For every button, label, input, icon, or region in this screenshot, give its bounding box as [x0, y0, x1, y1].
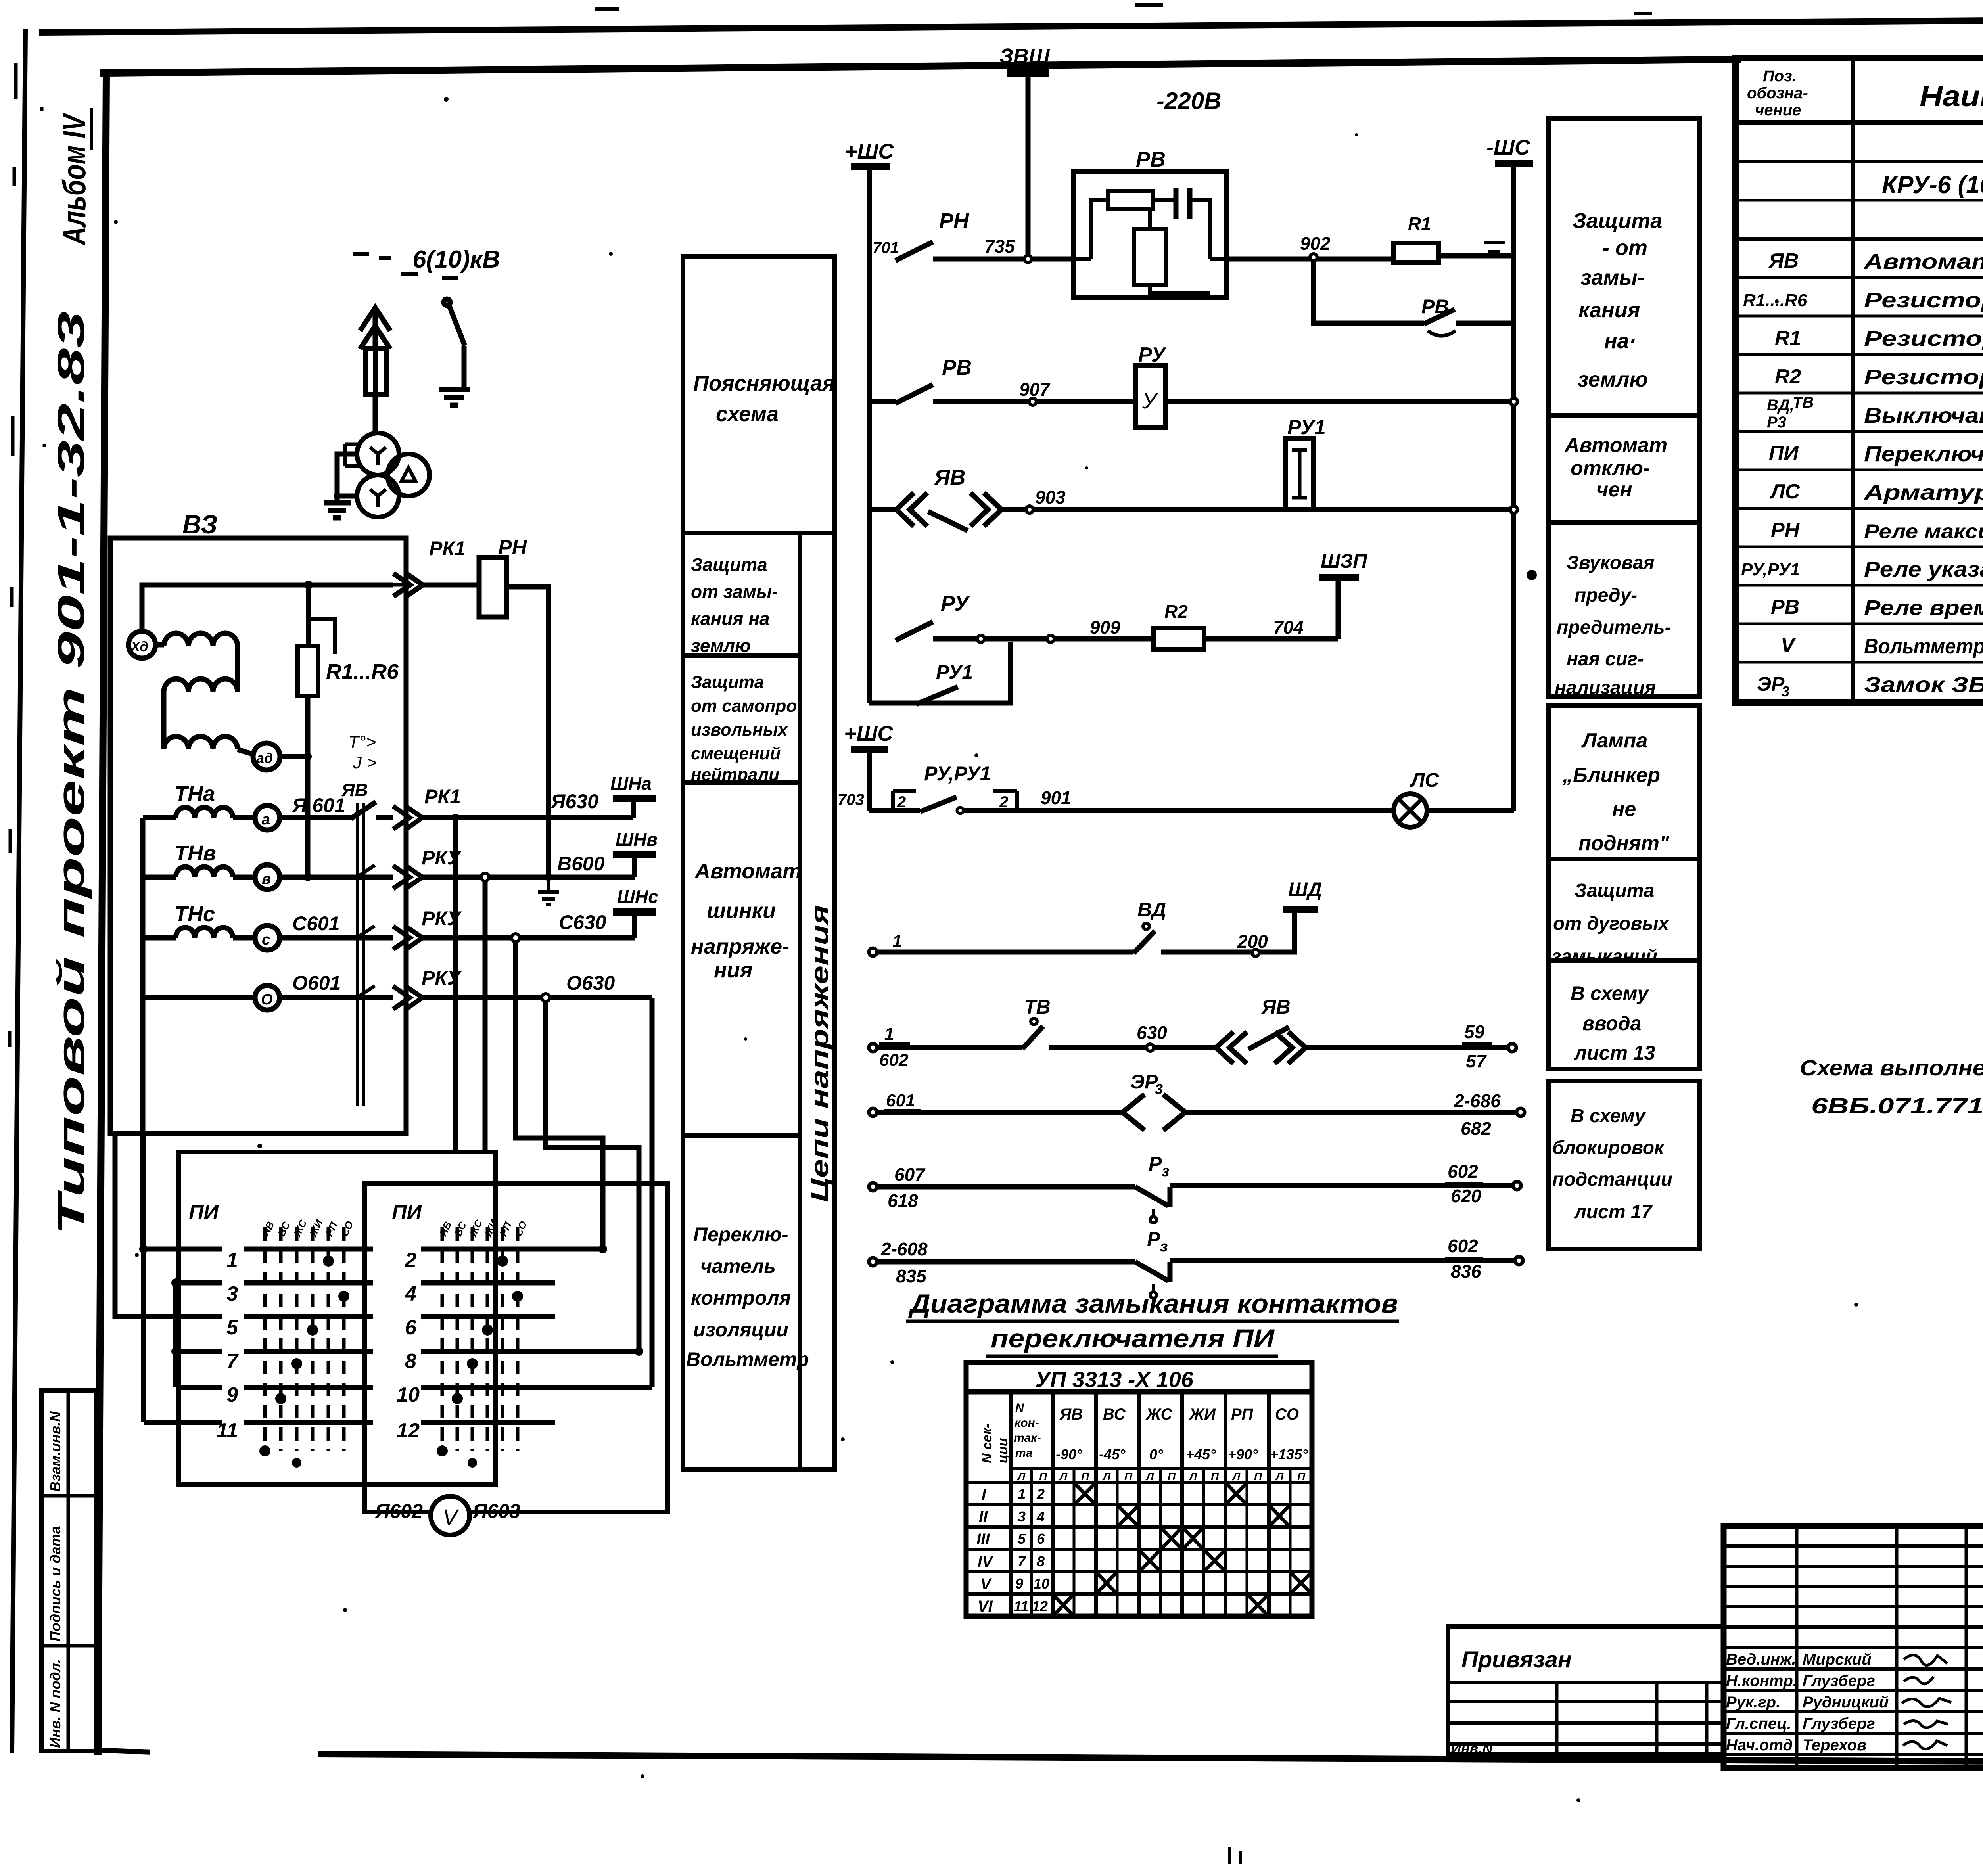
svg-text:П: П	[1297, 1470, 1306, 1483]
wire 200	[1161, 950, 1252, 955]
svg-text:620: 620	[1451, 1186, 1481, 1206]
text avtomat shinki	[691, 859, 802, 982]
svg-text:ВД: ВД	[1137, 899, 1166, 921]
PI left column tags	[259, 1217, 529, 1239]
svg-text:Наименование: Наименование	[1920, 80, 1983, 113]
svg-text:909: 909	[1090, 617, 1120, 638]
VZ box	[110, 538, 406, 1133]
UP table section numerals	[976, 1486, 994, 1615]
svg-text:J >: J >	[353, 753, 377, 772]
PI right contact rows	[421, 1249, 652, 1422]
svg-text:Рудницкий: Рудницкий	[1803, 1694, 1889, 1711]
svg-text:ЯВ: ЯВ	[1059, 1406, 1083, 1423]
svg-text:нализация: нализация	[1555, 677, 1656, 698]
svg-text:РК1: РК1	[424, 786, 461, 808]
svg-text:ПИ: ПИ	[189, 1201, 219, 1224]
svg-text:+90°: +90°	[1228, 1446, 1258, 1462]
PI right contact row numbers	[397, 1249, 420, 1442]
svg-text:630: 630	[1137, 1022, 1167, 1043]
svg-text:10: 10	[397, 1384, 420, 1407]
svg-text:Взам.инв.N: Взам.инв.N	[47, 1411, 63, 1492]
svg-text:Реле максим. напряжения РН-53/: Реле максим. напряжения РН-53/60Д	[1864, 520, 1983, 542]
svg-text:ЭР: ЭР	[1130, 1071, 1158, 1093]
svg-text:7: 7	[1018, 1553, 1026, 1569]
wire tap to RK1 upper	[309, 583, 393, 588]
svg-text:ЗВШ: ЗВШ	[999, 44, 1050, 68]
svg-text:+45°: +45°	[1186, 1446, 1216, 1462]
svg-text:Автомат: Автомат	[694, 859, 802, 883]
svg-text:Защита: Защита	[691, 673, 764, 692]
svg-text:Защита: Защита	[691, 554, 767, 575]
staff columns	[1795, 1526, 1799, 1768]
table row VD TV RZ	[1767, 394, 1814, 431]
svg-text:12: 12	[1032, 1598, 1048, 1614]
svg-text:6: 6	[1037, 1531, 1045, 1547]
primary winding coils	[155, 633, 253, 754]
UP table L/P subheader	[1017, 1470, 1306, 1483]
wire O630	[422, 995, 652, 1000]
left rail wire	[867, 180, 872, 703]
wire to right rail	[1166, 399, 1514, 404]
svg-text:Р: Р	[1147, 1228, 1160, 1250]
wire 901 to lamp	[963, 808, 1394, 813]
svg-text:10: 10	[1034, 1575, 1049, 1592]
svg-text:так-: так-	[1014, 1431, 1041, 1445]
feeder arrow head	[360, 308, 390, 435]
row RZ1: left terminal 607/618	[869, 1183, 877, 1191]
svg-text:ТНс: ТНс	[175, 902, 215, 926]
box pereklyuchatel kontrolya	[683, 1136, 800, 1470]
fuse FU	[365, 348, 387, 394]
svg-text:Глузберг: Глузберг	[1803, 1715, 1875, 1732]
svg-text:Привязан: Привязан	[1461, 1647, 1572, 1673]
svg-text:11: 11	[1014, 1598, 1028, 1614]
svg-text:обозна-: обозна-	[1747, 84, 1808, 102]
node row b drop (open)	[481, 873, 489, 881]
svg-text:РУ1: РУ1	[936, 661, 973, 683]
svg-text:Резистор ПЭВ-50; R=3 кОм: Резистор ПЭВ-50; R=3 кОм	[1864, 327, 1983, 351]
terminal ad	[253, 743, 280, 770]
svg-text:Инв. N подл.: Инв. N подл.	[47, 1659, 63, 1748]
node row c drop (open)	[512, 934, 520, 942]
svg-text:з: з	[1162, 1163, 1169, 1180]
row VD: left terminal	[869, 948, 877, 956]
box zashchita ot zamykaniya na zemlyu	[1549, 118, 1699, 416]
svg-text:I: I	[982, 1486, 986, 1503]
drawout plug bars	[358, 803, 363, 1106]
right terminal 2-686/682	[1517, 1108, 1525, 1116]
svg-text:682: 682	[1461, 1118, 1491, 1139]
svg-text:Я 601: Я 601	[292, 794, 345, 816]
svg-text:ад: ад	[256, 750, 273, 766]
svg-text:735: 735	[984, 236, 1015, 257]
svg-text:блокировок: блокировок	[1552, 1137, 1665, 1158]
table headers	[1747, 67, 1808, 119]
svg-text:Автомат: Автомат	[1564, 434, 1667, 457]
svg-text:N сек-: N сек-	[980, 1424, 995, 1463]
svg-text:Л: Л	[1232, 1470, 1241, 1483]
drop wire row a to PI	[453, 818, 458, 1152]
wire 735	[933, 257, 1073, 262]
voltmeter V	[431, 1496, 470, 1535]
svg-text:602: 602	[1448, 1236, 1478, 1256]
svg-text:-220В: -220В	[1156, 88, 1221, 114]
table row lines	[1736, 160, 1983, 163]
staff signatures	[1902, 1655, 1951, 1749]
svg-text:Мирский: Мирский	[1803, 1651, 1872, 1668]
svg-text:РП: РП	[1231, 1406, 1254, 1423]
privyazan table	[1448, 1627, 1724, 1755]
PI left closed-contact dots	[259, 1255, 349, 1468]
svg-text:ЯВ: ЯВ	[1261, 996, 1291, 1018]
svg-text:РУ: РУ	[941, 592, 970, 615]
svg-text:2: 2	[1036, 1486, 1045, 1502]
PI left group box	[178, 1152, 495, 1485]
svg-text:В схему: В схему	[1571, 982, 1649, 1004]
svg-text:от дуговых: от дуговых	[1553, 913, 1670, 934]
svg-text:КРУ-6 (10)кв, шкаф 10: КРУ-6 (10)кв, шкаф 10	[1882, 171, 1983, 199]
svg-text:Лампа: Лампа	[1581, 729, 1647, 752]
svg-text:шинки: шинки	[707, 899, 776, 923]
svg-text:С601: С601	[292, 912, 340, 935]
svg-text:ПИ: ПИ	[1769, 442, 1799, 465]
wire A630	[376, 815, 633, 820]
drop wire row 0 to PI row 8	[546, 1002, 639, 1351]
svg-text:607: 607	[894, 1164, 926, 1185]
drop wire row b to PI	[483, 881, 488, 1152]
wire Xd to RN branch	[142, 585, 309, 631]
terminal b	[255, 865, 280, 889]
text pereklyuchatel kontrolya	[686, 1223, 809, 1370]
svg-text:V: V	[1781, 634, 1796, 657]
svg-text:лист 17: лист 17	[1574, 1201, 1653, 1223]
svg-text:преду-: преду-	[1575, 585, 1637, 606]
svg-text:5: 5	[1018, 1531, 1026, 1547]
wire C601	[280, 935, 393, 941]
svg-text:Реле указательное РУ-21; -220В: Реле указательное РУ-21; -220В	[1864, 558, 1983, 581]
coil inside RV	[1134, 229, 1166, 285]
svg-text:Гл.спец.: Гл.спец.	[1726, 1715, 1791, 1732]
svg-text:3: 3	[226, 1282, 238, 1305]
svg-text:ТВ: ТВ	[1024, 996, 1051, 1018]
terminal Xd	[128, 631, 155, 658]
svg-text:V: V	[980, 1575, 992, 1593]
svg-text:Рук.гр.: Рук.гр.	[1726, 1694, 1780, 1711]
svg-text:з: з	[1160, 1238, 1168, 1255]
UP table X marks	[1053, 1483, 1312, 1616]
svg-text:П: П	[1124, 1470, 1133, 1483]
svg-text:ШНс: ШНс	[617, 886, 658, 907]
svg-text:Вед.инж.: Вед.инж.	[1726, 1651, 1796, 1668]
svg-text:Л: Л	[1145, 1470, 1154, 1483]
svg-text:R2: R2	[1164, 601, 1188, 622]
svg-text:6: 6	[405, 1316, 417, 1339]
left margin strip: project label	[50, 311, 92, 1235]
svg-text:1: 1	[884, 1024, 894, 1044]
svg-text:РУ1: РУ1	[1287, 416, 1326, 439]
svg-text:Поз.: Поз.	[1763, 67, 1797, 85]
svg-text:П: П	[1168, 1470, 1176, 1483]
svg-text:РВ: РВ	[1771, 596, 1799, 619]
svg-text:R2: R2	[1775, 365, 1801, 388]
svg-text:6ВБ.071.771.: 6ВБ.071.771.	[1811, 1093, 1983, 1118]
node 735/ZVSh	[1024, 255, 1032, 263]
svg-text:T°>: T°>	[348, 732, 376, 752]
svg-text:ЛС: ЛС	[1769, 480, 1801, 503]
PI right junction dots	[598, 1245, 607, 1253]
svg-text:Н.контр.: Н.контр.	[1726, 1672, 1797, 1690]
svg-text:2-686: 2-686	[1454, 1090, 1501, 1111]
wire 903	[1001, 507, 1286, 512]
svg-text:4: 4	[1036, 1508, 1045, 1525]
svg-text:3: 3	[1018, 1508, 1026, 1525]
node at resistor chain	[304, 753, 312, 761]
box zashchita ot zamykaniya	[683, 533, 800, 656]
svg-text:нейтрали: нейтрали	[691, 765, 779, 784]
svg-text:2: 2	[405, 1249, 416, 1272]
svg-text:Инв.N: Инв.N	[1451, 1740, 1493, 1757]
staff names	[1726, 1651, 1889, 1754]
svg-text:ТВ: ТВ	[1793, 394, 1814, 411]
text zvukovaya signalizatsiya	[1555, 552, 1671, 698]
text lampa blinker	[1562, 729, 1670, 855]
svg-text:О: О	[261, 991, 273, 1008]
svg-text:предитель-: предитель-	[1557, 617, 1671, 638]
bottom center tick marks	[1229, 1847, 1241, 1864]
svg-text:Я603: Я603	[472, 1500, 520, 1522]
svg-text:200: 200	[1237, 931, 1268, 952]
resistor R1...R6 vertical chain	[308, 585, 309, 877]
svg-text:902: 902	[1300, 233, 1331, 254]
svg-text:ШД: ШД	[1288, 878, 1322, 901]
svg-text:Диаграмма замыкания контактов: Диаграмма замыкания контактов	[908, 1289, 1398, 1318]
svg-text:землю: землю	[1578, 368, 1648, 391]
node R chain to row b	[304, 873, 312, 881]
svg-text:РВ: РВ	[942, 356, 972, 379]
svg-text:РУ,РУ1: РУ,РУ1	[924, 763, 991, 785]
text zashchita ot zamykaniya na zemlyu	[1573, 209, 1662, 391]
terminal a	[255, 805, 280, 830]
svg-text:от замы-: от замы-	[691, 581, 778, 602]
svg-text:Реле времени ЭВ 132. ; -220В: Реле времени ЭВ 132. ; -220В	[1864, 596, 1983, 620]
svg-text:Р3: Р3	[1767, 414, 1786, 431]
svg-text:8: 8	[1037, 1553, 1045, 1569]
svg-text:ПИ: ПИ	[392, 1201, 422, 1224]
svg-text:П: П	[1081, 1470, 1089, 1483]
svg-text:„Блинкер: „Блинкер	[1562, 764, 1660, 787]
svg-text:извольных: извольных	[691, 720, 788, 740]
wire O601	[280, 995, 393, 1000]
svg-text:РВ: РВ	[1136, 148, 1166, 171]
svg-text:Автомат ЯП50-3МТ; Iр=2,5А: Автомат ЯП50-3МТ; Iр=2,5А	[1863, 250, 1983, 274]
box v skhemu vvoda	[1549, 961, 1699, 1069]
bracket from resistor	[309, 619, 335, 654]
svg-text:Типовой проект 901-1-32.83: Типовой проект 901-1-32.83	[50, 311, 92, 1235]
PI right dashed stems	[442, 1227, 518, 1451]
svg-text:У: У	[1142, 388, 1158, 413]
svg-text:та: та	[1015, 1447, 1032, 1460]
svg-text:в: в	[262, 871, 271, 887]
svg-text:Л: Л	[1017, 1470, 1026, 1483]
PI right group box	[365, 1183, 667, 1512]
neutral bus to PI	[140, 998, 146, 1249]
svg-text:отклю-: отклю-	[1571, 457, 1650, 480]
secondary neutral bus	[140, 818, 146, 998]
PI left contact rows	[115, 1133, 373, 1422]
svg-text:РН: РН	[1771, 519, 1800, 542]
svg-text:Защита: Защита	[1575, 880, 1654, 901]
svg-text:-45°: -45°	[1099, 1446, 1126, 1462]
svg-text:- от: - от	[1602, 236, 1647, 260]
right rail wire	[1511, 163, 1516, 811]
winding zero	[143, 995, 255, 1000]
label KRU 6(10)kV (smudged)	[353, 254, 458, 278]
svg-text:ЯВ: ЯВ	[934, 466, 965, 489]
wire RN to B600 node	[506, 587, 548, 877]
voltage transformer 3-winding symbol	[357, 433, 430, 517]
node RU1 branch	[977, 635, 984, 642]
svg-text:Арматура ЛС-53, -220В: Арматура ЛС-53, -220В	[1863, 481, 1983, 504]
wire 630	[1049, 1045, 1216, 1050]
stamp text: vzam inv	[47, 1411, 63, 1492]
Y winding marks	[370, 447, 416, 507]
right terminal 602/836	[1515, 1257, 1523, 1265]
PI left junction dots	[139, 1245, 148, 1253]
svg-text:602: 602	[1448, 1161, 1478, 1182]
row RZ2: left terminal 2-608/835	[869, 1258, 877, 1266]
feeder wire	[373, 312, 378, 435]
svg-text:601: 601	[886, 1091, 915, 1110]
svg-text:59: 59	[1464, 1021, 1485, 1042]
svg-text:N: N	[1015, 1401, 1024, 1414]
PI left dashed stems	[265, 1227, 344, 1451]
svg-text:кания: кания	[1578, 298, 1640, 322]
svg-text:Поясняющая: Поясняющая	[693, 372, 835, 395]
svg-text:VI: VI	[978, 1598, 993, 1615]
svg-text:Терехов: Терехов	[1803, 1736, 1866, 1754]
wire 902	[1226, 256, 1514, 259]
box poyasnyayushchaya skhema	[683, 257, 834, 533]
svg-text:3: 3	[1155, 1081, 1163, 1097]
svg-text:12: 12	[397, 1419, 420, 1442]
svg-text:ная сиг-: ная сиг-	[1567, 649, 1644, 670]
svg-text:1: 1	[226, 1249, 238, 1272]
row ERZ: left terminal 601	[869, 1108, 877, 1116]
terminal O	[255, 985, 280, 1010]
text v skhemu vvoda	[1571, 982, 1655, 1064]
svg-text:2-608: 2-608	[880, 1239, 928, 1259]
svg-text:835: 835	[896, 1266, 927, 1286]
box avtomat otklyuchen	[1549, 416, 1699, 523]
drawing frame top	[104, 59, 1737, 73]
drop wire row c to PI row 2	[516, 942, 603, 1249]
svg-text:ВД,: ВД,	[1767, 397, 1794, 414]
svg-text:Схема выполнена на основании ч: Схема выполнена на основании чертежа	[1800, 1055, 1983, 1080]
svg-text:Л: Л	[1059, 1470, 1068, 1483]
svg-text:Л: Л	[1102, 1470, 1111, 1483]
sheet outer top border	[42, 17, 1983, 33]
svg-text:Р: Р	[1149, 1153, 1162, 1175]
ground symbol (transformer neutral)	[324, 503, 351, 518]
stamp text: inv n podl	[47, 1659, 63, 1748]
svg-text:R1...R6: R1...R6	[326, 660, 399, 684]
svg-text:704: 704	[1273, 617, 1304, 638]
svg-text:Звуковая: Звуковая	[1567, 552, 1655, 573]
svg-text:-90°: -90°	[1056, 1446, 1082, 1462]
wire B600	[422, 875, 635, 880]
UP table header N sektsii	[980, 1424, 995, 1463]
svg-text:контроля: контроля	[691, 1287, 791, 1309]
node RN tap on R chain	[304, 581, 313, 589]
resistor inside RV	[1108, 191, 1153, 209]
box zashchita ot dugovykh	[1549, 859, 1699, 961]
svg-text:замыканий: замыканий	[1551, 946, 1657, 967]
svg-text:РН: РН	[939, 209, 969, 233]
svg-text:Я630: Я630	[550, 790, 598, 812]
svg-text:0°: 0°	[1149, 1446, 1163, 1462]
svg-text:лист 13: лист 13	[1574, 1042, 1655, 1064]
svg-text:П: П	[1254, 1470, 1262, 1483]
svg-text:701: 701	[873, 239, 899, 257]
svg-text:+ШС: +ШС	[845, 140, 894, 163]
wire C630	[422, 935, 635, 941]
svg-text:Замок ЗБ-1, ключ КЭЗ-1; -220В: Замок ЗБ-1, ключ КЭЗ-1; -220В	[1864, 673, 1983, 697]
svg-text:ШЗП: ШЗП	[1321, 550, 1367, 572]
text poyasnyayushchaya skhema	[693, 372, 835, 426]
svg-text:РУ,РУ1: РУ,РУ1	[1741, 560, 1800, 579]
svg-text:на·: на·	[1604, 329, 1636, 353]
svg-text:ЖИ: ЖИ	[1189, 1406, 1216, 1423]
left margin strip: album label	[56, 108, 92, 246]
svg-text:8: 8	[405, 1350, 416, 1373]
box lampa blinker	[1549, 706, 1699, 859]
svg-text:9: 9	[1015, 1575, 1023, 1592]
right terminal 59/57	[1508, 1044, 1516, 1052]
svg-text:поднят": поднят"	[1578, 832, 1670, 855]
svg-text:замы-: замы-	[1580, 266, 1645, 289]
svg-text:кания на: кания на	[691, 608, 770, 629]
node row a drop	[451, 814, 459, 822]
wire 907	[933, 399, 1134, 404]
svg-text:R1: R1	[1408, 213, 1431, 234]
svg-text:V: V	[443, 1504, 459, 1529]
svg-text:переключателя ПИ: переключателя ПИ	[991, 1324, 1275, 1353]
row TV: left terminal	[869, 1044, 877, 1052]
RV seal-in branch	[1314, 261, 1424, 323]
svg-text:ЯВ: ЯВ	[1768, 249, 1799, 272]
svg-text:907: 907	[1019, 379, 1051, 400]
wire 704	[1204, 636, 1338, 642]
svg-text:3: 3	[1782, 683, 1789, 699]
text zashchita ot samoproizvolnykh	[691, 673, 797, 784]
svg-text:703: 703	[838, 791, 864, 809]
svg-text:а: а	[262, 811, 270, 828]
svg-text:Вольтметр: Вольтметр	[686, 1348, 809, 1370]
svg-text:смещений: смещений	[691, 744, 781, 763]
staff rows	[1724, 1544, 1983, 1548]
left margin noise marks	[10, 63, 44, 1047]
svg-text:Переклю-: Переклю-	[693, 1223, 788, 1246]
svg-text:Резистор ПЭВ-100; R=150 Ом: Резистор ПЭВ-100; R=150 Ом	[1864, 288, 1983, 312]
svg-text:602: 602	[879, 1050, 909, 1070]
svg-text:Цепи напряжения: Цепи напряжения	[806, 905, 834, 1202]
svg-text:II: II	[979, 1508, 988, 1525]
wire RK1 to RN coil	[423, 583, 479, 588]
svg-text:не: не	[1612, 798, 1636, 821]
svg-text:Альбом IV: Альбом IV	[56, 112, 92, 246]
box avtomat shinki	[683, 782, 800, 1136]
UP table angles	[1056, 1446, 1308, 1462]
